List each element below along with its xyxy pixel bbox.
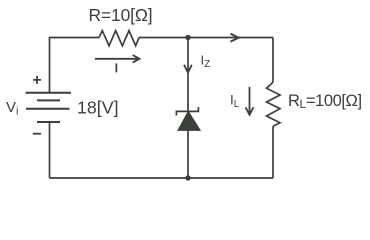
- wire zener anode to node B: [187, 130, 189, 178]
- svg-text:18[V]: 18[V]: [77, 97, 119, 117]
- resistor R zigzag: [99, 31, 139, 46]
- svg-text:IL: IL: [230, 92, 240, 110]
- resistor RL zigzag: [267, 82, 281, 126]
- zener diode D anode triangle: [178, 111, 200, 130]
- current arrowhead on wire to RL: [231, 34, 239, 42]
- wire zener branch from node A down to cathode bar: [187, 38, 189, 112]
- current arrow I (under resistor R): [95, 55, 140, 63]
- label - (battery negative): [33, 133, 41, 135]
- label I: [115, 63, 117, 72]
- current arrowhead IZ: [184, 65, 192, 73]
- svg-text:R=10[Ω]: R=10[Ω]: [89, 5, 153, 25]
- node B junction dot: [185, 175, 190, 180]
- node A junction dot: [185, 35, 190, 40]
- battery Vi plate 4 short (negative): [37, 121, 60, 123]
- wire bottom: [50, 177, 274, 179]
- svg-text:RL=100[Ω]: RL=100[Ω]: [288, 92, 362, 111]
- wire battery negative to bottom-left corner: [49, 122, 51, 178]
- battery Vi plate 1 long (positive): [26, 92, 71, 94]
- svg-text:IZ: IZ: [201, 52, 211, 70]
- svg-text:Vi: Vi: [6, 99, 18, 118]
- wire resistor R to node A: [139, 37, 188, 39]
- battery Vi plate 3 long: [26, 108, 70, 110]
- wire battery positive to resistor R (left rail top + top-left wire): [50, 38, 100, 93]
- wire node A to top-right corner: [188, 37, 273, 39]
- zener diode D cathode bar with bent ends: [176, 107, 198, 116]
- wire right rail bottom: [272, 126, 274, 178]
- current arrow IL: [246, 87, 254, 115]
- battery Vi plate 2 short: [37, 99, 60, 101]
- wire right rail top: [272, 38, 274, 83]
- label + (battery positive): [33, 76, 41, 84]
